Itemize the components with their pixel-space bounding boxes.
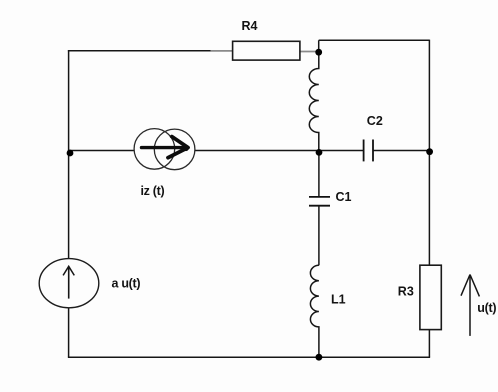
svg-text:u(t): u(t)	[477, 301, 496, 315]
wire jog up from node A	[318, 40, 320, 53]
voltage source a u(t)	[39, 259, 99, 308]
node B middle-center junction	[316, 149, 323, 156]
inductor L2 (top middle, unlabelled)	[309, 52, 319, 152]
current source iz(t)	[134, 129, 195, 170]
node A top junction (right of R4)	[315, 49, 322, 56]
svg-text:C1: C1	[336, 190, 352, 204]
resistor R4	[233, 41, 300, 60]
node E bottom-center junction	[316, 354, 323, 361]
node D middle-right junction	[426, 148, 433, 155]
wire C1 to L1	[318, 206, 320, 266]
resistor R3	[420, 265, 441, 329]
wire middle horizontal right (C2 right plate to node D)	[373, 150, 429, 152]
node left-middle junction	[67, 150, 74, 157]
svg-text:L1: L1	[331, 293, 346, 307]
inductor L1	[310, 265, 319, 357]
wire grey lead left of R4	[211, 50, 234, 52]
capacitor C2	[364, 140, 373, 162]
svg-text:R4: R4	[242, 19, 258, 33]
wire middle horizontal left (node B to C2 left plate)	[69, 150, 364, 152]
svg-text:R3: R3	[398, 285, 414, 299]
wire top horizontal (left corner to R4)	[68, 50, 213, 52]
wire top-right horizontal	[319, 39, 430, 41]
wire left vertical (top node to bottom-left corner)	[68, 50, 70, 357]
wire from node B down to C1	[318, 152, 320, 197]
wire grey lead right of R4	[300, 51, 317, 53]
svg-text:iz (t): iz (t)	[141, 184, 165, 198]
wire bottom horizontal	[68, 356, 430, 358]
svg-text:C2: C2	[367, 114, 383, 128]
svg-text:a u(t): a u(t)	[112, 277, 141, 291]
wire right vertical	[428, 40, 430, 358]
capacitor C1	[309, 197, 330, 206]
arrow u(t)	[461, 275, 479, 336]
